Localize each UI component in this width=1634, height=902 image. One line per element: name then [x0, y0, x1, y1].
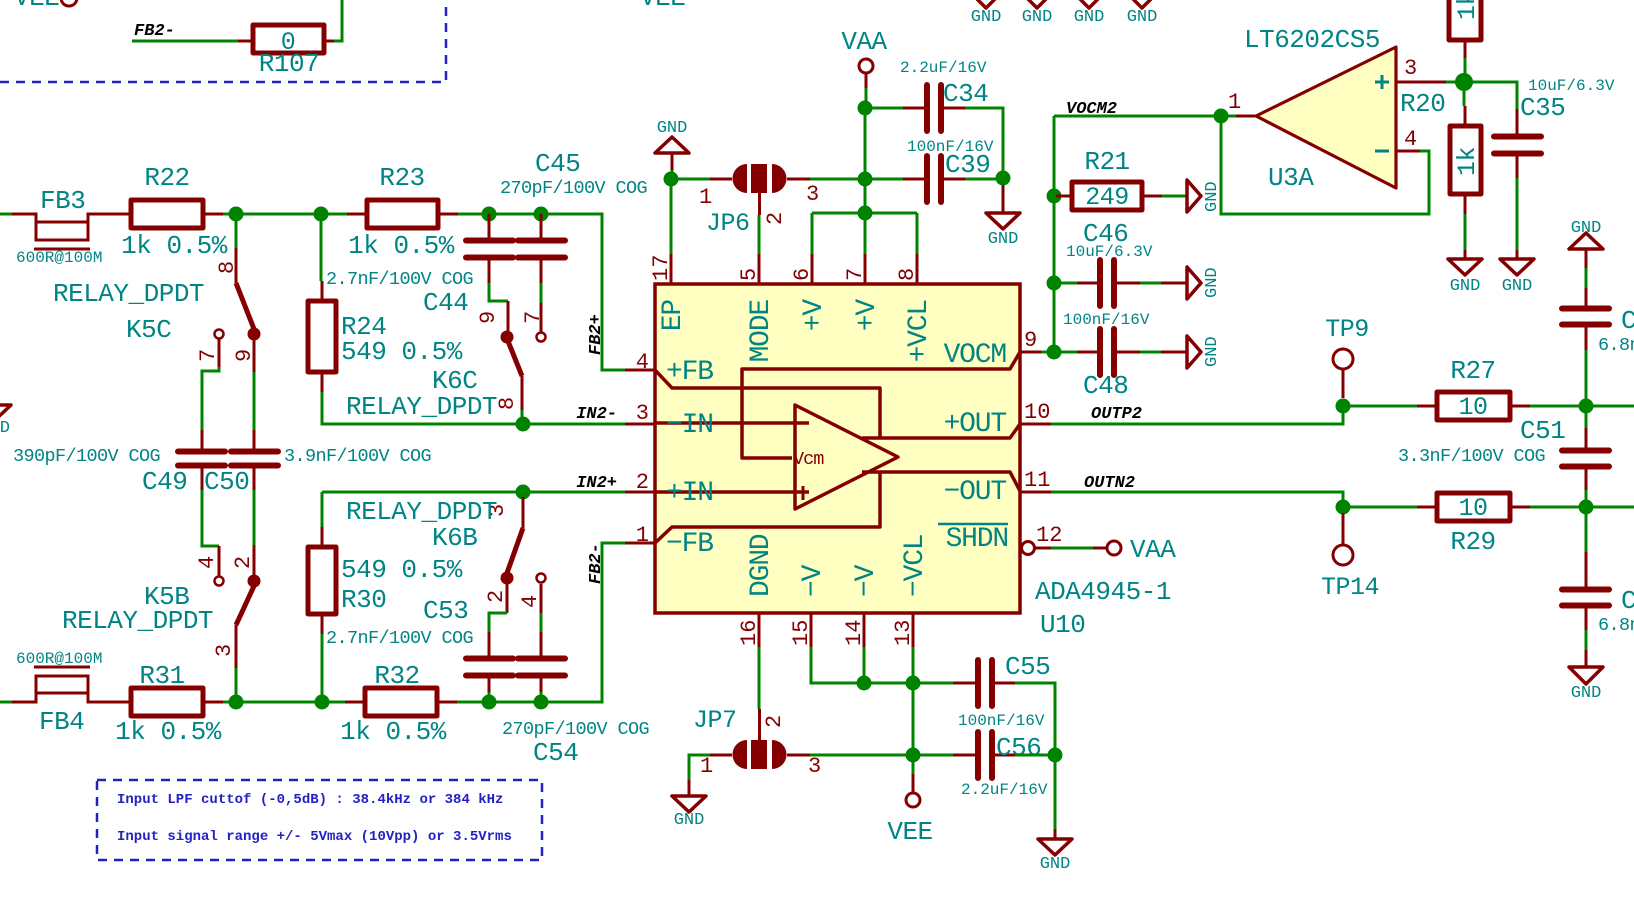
svg-text:C54: C54 — [533, 738, 578, 768]
power symbol VEE (bottom) — [887, 774, 932, 847]
relay K6C switch — [346, 301, 546, 422]
svg-text:13: 13 — [891, 620, 916, 646]
svg-text:GND: GND — [1571, 684, 1602, 703]
svg-text:K6B: K6B — [432, 523, 477, 553]
relay K5B switch — [62, 545, 261, 668]
wire JP6 pin2 to MODE — [758, 215, 761, 254]
U10 internal -IN line — [655, 421, 809, 425]
pin U3A 1 stub — [1236, 115, 1256, 118]
power symbol VEE (top-left, clipped) — [14, 0, 77, 13]
svg-text:6.8n: 6.8n — [1598, 615, 1634, 636]
svg-text:FB3: FB3 — [40, 186, 85, 216]
pin 4 +FB stub — [625, 350, 713, 388]
wire R32 to FB2- corner — [457, 543, 625, 702]
svg-text:R107: R107 — [259, 49, 319, 79]
pin 2 +IN stub — [625, 470, 713, 509]
power symbol VAA (at SHDN) — [1093, 535, 1176, 565]
test point TP9 — [1325, 315, 1369, 398]
svg-text:270pF/100V COG: 270pF/100V COG — [502, 719, 649, 740]
pin 8 +VCL stub — [895, 254, 935, 362]
svg-text:FB2+: FB2+ — [587, 314, 606, 355]
pin 16 DGND stub — [737, 534, 777, 647]
svg-text:VEE: VEE — [640, 0, 685, 13]
svg-text:VEE: VEE — [887, 817, 932, 847]
svg-text:C55: C55 — [1005, 652, 1050, 682]
node junction R30 bottom — [315, 695, 330, 710]
resistor R23 — [347, 163, 458, 261]
pin 12 SHDN stub with inversion bubble — [938, 523, 1062, 555]
dashed note box top-left — [0, 0, 446, 82]
svg-text:IN2-: IN2- — [576, 405, 617, 424]
svg-text:549 0.5%: 549 0.5% — [341, 337, 463, 367]
svg-text:5: 5 — [737, 268, 762, 281]
svg-text:VAA: VAA — [1130, 535, 1176, 565]
svg-text:600R@100M: 600R@100M — [16, 650, 102, 668]
wire C39 row left — [865, 178, 903, 181]
wire JP7 pin3 to VEE node — [810, 754, 953, 757]
svg-text:8: 8 — [895, 268, 920, 281]
power symbol GND right-arrow (C48) — [1161, 336, 1222, 368]
U10 internal +IN line — [655, 490, 809, 494]
svg-text:R23: R23 — [379, 163, 424, 193]
node junction C46 — [1047, 276, 1062, 291]
svg-text:11: 11 — [1024, 468, 1050, 493]
node junction C34 left — [858, 101, 873, 116]
power symbol GND right-arrow (C46) — [1161, 267, 1222, 299]
pin 10 +OUT stub — [944, 400, 1051, 440]
svg-text:1k 0.5%: 1k 0.5% — [340, 717, 447, 747]
svg-text:10: 10 — [1458, 393, 1487, 422]
op-amp triangle inside U10 — [795, 405, 898, 509]
svg-text:4: 4 — [518, 595, 543, 608]
wire -OUT to TP14 corner — [1051, 492, 1343, 507]
wire VOCM pin9 to node — [1041, 351, 1054, 354]
wire EP drop — [670, 179, 673, 254]
svg-text:+VCL: +VCL — [904, 300, 935, 363]
svg-text:1: 1 — [636, 523, 649, 548]
svg-text:RELAY_DPDT: RELAY_DPDT — [62, 606, 213, 636]
svg-text:JP6: JP6 — [706, 209, 750, 238]
capacitor C54 — [502, 632, 649, 768]
svg-text:−VCL: −VCL — [900, 534, 931, 597]
ferrite bead FB4 — [12, 650, 131, 737]
svg-text:15: 15 — [789, 620, 814, 646]
svg-text:C44: C44 — [423, 288, 468, 318]
resistor R24 — [308, 214, 463, 392]
svg-text:GND: GND — [1040, 855, 1071, 874]
svg-text:TP9: TP9 — [1325, 315, 1369, 344]
svg-text:−OUT: −OUT — [944, 477, 1007, 508]
svg-text:+V: +V — [799, 299, 830, 332]
svg-text:SHDN: SHDN — [946, 524, 1008, 555]
wire R20 node to C35 — [1464, 82, 1517, 109]
capacitor C53 — [326, 596, 513, 692]
wire +V pin6 drop — [811, 213, 814, 254]
wire R30 bottom to rail — [321, 634, 324, 702]
svg-text:3: 3 — [1404, 56, 1417, 81]
svg-text:C5: C5 — [1621, 586, 1634, 616]
node junction R20 top — [1455, 73, 1473, 91]
resistor R32 — [340, 661, 457, 747]
node junction +V rail — [858, 206, 873, 221]
node junction C51 bottom — [1579, 500, 1594, 515]
svg-text:GND: GND — [1450, 277, 1481, 296]
svg-text:R32: R32 — [374, 661, 419, 691]
wire +VCL pin8 drop — [916, 213, 919, 254]
svg-text:2: 2 — [636, 470, 649, 495]
IC U10 body ADA4945-1 — [655, 284, 1020, 613]
svg-text:−V: −V — [851, 564, 882, 597]
capacitor C48 — [1063, 311, 1150, 401]
node junction K5B pin3 — [229, 695, 244, 710]
wire C34 row left — [865, 107, 903, 110]
U10 internal plus marker — [802, 486, 805, 500]
resistor R31 — [115, 661, 223, 747]
svg-text:VAA: VAA — [841, 27, 887, 57]
wire to GND bottom — [1054, 755, 1057, 829]
wire JP6 pin3 to VAA node — [810, 178, 858, 181]
svg-text:7: 7 — [843, 268, 868, 281]
node junction K6B pin3 — [516, 485, 531, 500]
svg-text:EP: EP — [658, 300, 689, 332]
relay K5C switch — [53, 248, 261, 372]
svg-text:3: 3 — [212, 644, 237, 657]
svg-text:1: 1 — [700, 754, 713, 779]
svg-text:K5C: K5C — [126, 315, 171, 345]
wire R20 to GND — [1464, 214, 1467, 250]
wire U3A feedback loop — [1221, 123, 1429, 214]
wire C46 row left — [1054, 282, 1077, 285]
wire R107 right up — [334, 0, 342, 41]
wire K5C pin9 to C50 — [253, 372, 256, 430]
wire left to FB3 — [0, 213, 12, 216]
node junction C55/C56 right — [1048, 748, 1063, 763]
svg-text:3.9nF/100V COG: 3.9nF/100V COG — [284, 446, 431, 467]
wire -V rail to C55 — [864, 682, 953, 685]
wire C45 to K6C pin7 — [540, 283, 543, 303]
U10 internal -OUT line — [862, 472, 1020, 491]
wire top resistor to node — [1464, 58, 1467, 82]
wire R29 to right edge — [1530, 506, 1634, 509]
pin 13 -VCL stub — [891, 534, 931, 647]
svg-text:2.7nF/100V COG: 2.7nF/100V COG — [326, 628, 473, 649]
wire C46 to GND arrow — [1140, 282, 1161, 285]
op-amp U3A — [1228, 25, 1417, 193]
svg-text:1: 1 — [1228, 90, 1241, 115]
wire C48 to GND arrow — [1140, 351, 1161, 354]
svg-text:FB4: FB4 — [39, 707, 84, 737]
power symbol VAA (top) — [841, 27, 887, 88]
resistor R29 — [1417, 493, 1530, 557]
svg-text:17: 17 — [649, 255, 674, 281]
wire FB2- net to R107 — [132, 40, 238, 43]
capacitor C35 — [1494, 77, 1615, 178]
wire VAA to C34 node — [865, 88, 868, 108]
svg-text:GND: GND — [1203, 336, 1222, 367]
svg-text:8: 8 — [215, 261, 240, 274]
svg-text:2: 2 — [484, 590, 509, 603]
wire C56 right — [1015, 754, 1055, 757]
wire C50 to K5B pin2 — [253, 490, 256, 545]
node junction TP9 — [1336, 399, 1351, 414]
svg-text:1k: 1k — [1453, 0, 1482, 20]
svg-text:3: 3 — [806, 182, 819, 207]
svg-text:GND: GND — [1203, 267, 1222, 298]
wire SHDN to VAA — [1051, 547, 1093, 550]
wire TP14 node to R29 — [1343, 506, 1417, 509]
wire R31 to R32 — [223, 701, 345, 704]
svg-text:1k: 1k — [1453, 147, 1482, 176]
svg-text:600R@100M: 600R@100M — [16, 249, 102, 267]
svg-text:270pF/100V COG: 270pF/100V COG — [500, 178, 647, 199]
power symbol GND (left edge, clipped) — [0, 405, 11, 438]
wire DGND to JP7 pin2 — [758, 647, 761, 709]
node junction VOCM/C48 — [1047, 345, 1062, 360]
node junction C45 top — [534, 207, 549, 222]
svg-text:1k 0.5%: 1k 0.5% — [121, 231, 228, 261]
U10 internal +OUT line — [862, 424, 1020, 438]
wire C57 to GND — [1585, 630, 1588, 650]
power symbol GND above JP6 — [655, 119, 689, 170]
svg-text:10: 10 — [1024, 400, 1050, 425]
capacitor C57 (6.8n bottom) — [1562, 507, 1634, 636]
wire JP7 pin1 to GND — [689, 755, 710, 780]
node junction C54 bottom — [534, 695, 549, 710]
node junction K6C pin8 — [516, 417, 531, 432]
svg-text:7: 7 — [196, 349, 221, 362]
wire K5C pin8 drop — [235, 214, 238, 248]
wire pin3 to R20 node — [1446, 81, 1457, 84]
pin U3A 4 stub — [1396, 150, 1420, 153]
svg-text:C48: C48 — [1083, 371, 1128, 401]
svg-text:C35: C35 — [1520, 93, 1565, 123]
svg-text:2.2uF/16V: 2.2uF/16V — [961, 781, 1048, 799]
pin U3A 3 stub — [1396, 81, 1446, 84]
wire K6C pin8 to -IN row — [521, 410, 524, 424]
wire C48 row left — [1054, 351, 1077, 354]
U10 internal -FB feedback path — [655, 472, 880, 543]
U10 internal VOCM path — [742, 352, 1020, 458]
power symbol GND right-arrow (R21) — [1187, 180, 1222, 212]
svg-text:390pF/100V COG: 390pF/100V COG — [13, 446, 160, 467]
svg-text:R29: R29 — [1450, 527, 1495, 557]
power symbol GND row top 1 — [969, 0, 1003, 27]
wire C44 to K6C pin9 — [489, 283, 508, 301]
resistor R107 — [238, 25, 334, 79]
svg-text:GND: GND — [1022, 8, 1053, 27]
capacitor C44 — [326, 214, 513, 318]
pin 9 VOCM stub — [944, 328, 1041, 371]
power symbol GND below C56 — [1038, 829, 1072, 874]
wire C52 to node — [1585, 350, 1588, 406]
node junction C44 top — [482, 207, 497, 222]
power symbol GND below C57 — [1569, 650, 1603, 703]
capacitor C45 — [500, 149, 647, 283]
capacitor C51 — [1398, 406, 1609, 507]
node junction EP/JP6 — [664, 172, 679, 187]
svg-text:Input LPF cuttof (-0,5dB) : 38: Input LPF cuttof (-0,5dB) : 38.4kHz or 3… — [117, 792, 503, 808]
node junction TP14 — [1336, 500, 1351, 515]
wire +V rail — [812, 212, 917, 215]
svg-text:249: 249 — [1085, 183, 1129, 212]
svg-text:2: 2 — [763, 212, 788, 225]
svg-text:JP7: JP7 — [693, 706, 737, 735]
wire +OUT to TP9 corner — [1051, 406, 1343, 424]
svg-text:100nF/16V: 100nF/16V — [1063, 311, 1150, 329]
svg-text:GND: GND — [0, 419, 10, 438]
wire K6B pin4 to C54 — [540, 613, 543, 632]
dashed notes box bottom-left — [97, 780, 542, 860]
resistor R21 — [1056, 147, 1162, 212]
svg-text:+FB: +FB — [666, 357, 713, 388]
wire +V pin7 drop — [864, 213, 867, 254]
capacitor C56 — [953, 732, 1048, 799]
wire VOCM vertical — [1053, 116, 1056, 352]
svg-text:9: 9 — [476, 311, 501, 324]
svg-text:RELAY_DPDT: RELAY_DPDT — [346, 392, 497, 422]
svg-text:TP14: TP14 — [1321, 573, 1379, 602]
svg-text:LT6202CS5: LT6202CS5 — [1244, 25, 1380, 55]
pin 15 -V stub — [789, 564, 829, 647]
wire C54 to rail — [540, 692, 543, 702]
wire left to FB4 — [0, 701, 12, 704]
svg-text:Vcm: Vcm — [793, 449, 824, 470]
svg-text:R22: R22 — [144, 163, 189, 193]
svg-text:7: 7 — [521, 311, 546, 324]
wire K5C pin7 to C49 — [202, 367, 219, 430]
svg-text:GND: GND — [988, 230, 1019, 249]
wire -V pin15 drop — [811, 647, 857, 683]
svg-text:C34: C34 — [943, 79, 988, 109]
wire JP6 pin1 — [678, 178, 710, 181]
svg-text:4: 4 — [636, 350, 649, 375]
wire -VCL pin13 drop — [912, 647, 915, 683]
svg-text:10uF/6.3V: 10uF/6.3V — [1066, 243, 1153, 261]
wire TP9 node to R27 — [1343, 405, 1417, 408]
svg-text:RELAY_DPDT: RELAY_DPDT — [53, 279, 204, 309]
capacitor C52 (6.8n top) — [1562, 268, 1634, 356]
svg-text:R21: R21 — [1084, 147, 1129, 177]
svg-text:1: 1 — [699, 185, 712, 210]
resistor R22 — [121, 163, 228, 261]
wire VEE drop — [912, 683, 915, 774]
wire -V pin14 drop — [863, 647, 866, 683]
svg-text:MODE: MODE — [746, 300, 777, 363]
node junction -V rail 2 — [906, 676, 921, 691]
svg-text:−V: −V — [798, 564, 829, 597]
pin 17 EP stub — [649, 254, 689, 331]
svg-text:C56: C56 — [996, 733, 1041, 763]
resistor R30 — [308, 492, 463, 634]
wire C35 to GND — [1516, 178, 1519, 250]
svg-text:C50: C50 — [204, 467, 249, 497]
svg-text:R30: R30 — [341, 585, 386, 615]
ferrite bead FB3 — [12, 186, 131, 267]
power symbol GND row top 3 — [1072, 0, 1106, 27]
svg-text:U10: U10 — [1040, 610, 1085, 640]
wire VAA node down — [864, 108, 867, 213]
svg-text:2: 2 — [231, 556, 256, 569]
power symbol GND below R20 — [1448, 250, 1482, 296]
svg-text:IN2+: IN2+ — [576, 474, 617, 493]
svg-text:2.7nF/100V COG: 2.7nF/100V COG — [326, 269, 473, 290]
resistor R1k (top, clipped) — [1449, 0, 1482, 58]
node junction C51 top — [1579, 399, 1594, 414]
svg-text:U3A: U3A — [1268, 163, 1314, 193]
power symbol GND above top-right cap — [1569, 219, 1603, 268]
wire K5B pin3 to rail — [235, 668, 238, 702]
svg-text:FB2-: FB2- — [587, 543, 606, 584]
svg-text:GND: GND — [1074, 8, 1105, 27]
svg-text:C5: C5 — [1621, 306, 1634, 336]
svg-text:16: 16 — [737, 620, 762, 646]
solder jumper JP7 — [693, 706, 821, 779]
capacitor C34 — [900, 59, 988, 131]
capacitor C55 — [953, 652, 1050, 730]
wire R27 to right edge — [1530, 405, 1634, 408]
svg-text:OUTN2: OUTN2 — [1084, 474, 1135, 493]
svg-text:FB2-: FB2- — [134, 22, 175, 41]
svg-text:9: 9 — [232, 349, 257, 362]
svg-text:R20: R20 — [1400, 89, 1445, 119]
node junction C39 right — [996, 171, 1011, 186]
svg-text:2.2uF/16V: 2.2uF/16V — [900, 59, 987, 77]
svg-text:6.8n: 6.8n — [1598, 335, 1634, 356]
svg-text:4: 4 — [195, 556, 220, 569]
resistor R27 — [1417, 356, 1530, 422]
node junction R24 top — [314, 207, 329, 222]
node junction R22/K5C — [229, 207, 244, 222]
svg-text:+OUT: +OUT — [944, 409, 1007, 440]
wire VOCM2 to U3A pin1 — [1054, 115, 1229, 118]
svg-text:+IN: +IN — [666, 478, 713, 509]
svg-text:1k 0.5%: 1k 0.5% — [115, 717, 222, 747]
svg-text:2: 2 — [762, 715, 787, 728]
node junction C39/JP6 — [858, 172, 873, 187]
pin 5 MODE stub — [737, 254, 777, 362]
svg-text:100nF/16V: 100nF/16V — [958, 712, 1045, 730]
svg-text:ADA4945-1: ADA4945-1 — [1035, 577, 1171, 607]
svg-text:549 0.5%: 549 0.5% — [341, 555, 463, 585]
power symbol GND below C39 — [986, 185, 1020, 249]
capacitor C39 — [903, 138, 994, 202]
solder jumper JP6 — [699, 164, 819, 238]
pin 3 -IN stub — [625, 401, 713, 441]
svg-text:1k 0.5%: 1k 0.5% — [348, 231, 455, 261]
svg-text:−FB: −FB — [666, 529, 713, 560]
svg-text:C45: C45 — [535, 149, 580, 179]
svg-text:+V: +V — [852, 299, 883, 332]
svg-text:3: 3 — [808, 754, 821, 779]
wire C53 to rail — [488, 692, 491, 702]
wire C49 to K5B pin4 — [202, 490, 219, 546]
node junction U3A pin1 — [1214, 109, 1229, 124]
node junction C53 bottom — [482, 695, 497, 710]
svg-text:R27: R27 — [1450, 356, 1495, 386]
svg-text:−IN: −IN — [666, 410, 713, 441]
svg-text:GND: GND — [1502, 277, 1533, 296]
svg-text:GND: GND — [1127, 8, 1158, 27]
svg-text:GND: GND — [674, 811, 705, 830]
node junction VEE/JP7 — [906, 748, 921, 763]
svg-text:VEE: VEE — [14, 0, 59, 13]
test point TP14 — [1321, 513, 1379, 602]
svg-text:VOCM: VOCM — [944, 340, 1007, 371]
wire C55 right corner down — [1015, 683, 1055, 755]
capacitor C50 — [204, 430, 431, 497]
capacitor C46 — [1066, 219, 1153, 306]
relay K6B switch — [346, 497, 546, 613]
